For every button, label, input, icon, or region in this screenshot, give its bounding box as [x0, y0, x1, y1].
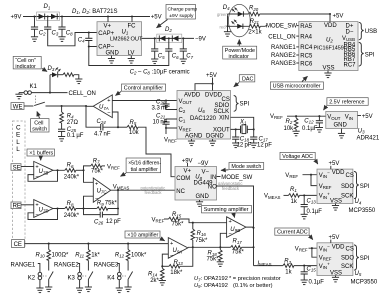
- svg-text:Current ADC: Current ADC: [277, 230, 308, 236]
- svg-text:0.1µF: 0.1µF: [307, 209, 323, 215]
- svg-text:RANGE1: RANGE1: [271, 45, 296, 51]
- wire +5V to VDD: [330, 166, 332, 169]
- svg-text:R6: R6: [67, 163, 74, 169]
- svg-text:WE: WE: [13, 104, 23, 110]
- resistor R4: [61, 106, 63, 112]
- callout Mode switch: [229, 163, 264, 170]
- svg-text:E: E: [16, 132, 20, 139]
- svg-text:VSS: VSS: [330, 270, 342, 276]
- wire R8 node to U7C -: [84, 196, 94, 208]
- svg-text:SCK: SCK: [341, 194, 353, 200]
- svg-text:R3: R3: [284, 259, 291, 265]
- svg-text:FC: FC: [128, 24, 137, 30]
- resistor R2: [295, 116, 297, 118]
- junction: [107, 15, 109, 17]
- callout x5/16 differential amplifier: [126, 158, 161, 173]
- svg-text:tial amplifier: tial amplifier: [131, 167, 158, 173]
- ground (K1): [18, 93, 20, 95]
- svg-text:+5V: +5V: [333, 13, 344, 19]
- wire R5 to U8 COM: [138, 127, 175, 177]
- capacitor C17: [253, 129, 255, 137]
- svg-text:75k*: 75k*: [195, 238, 208, 244]
- svg-text:100Ω*: 100Ω*: [52, 252, 69, 258]
- relay K3 contact: [88, 272, 93, 288]
- svg-text:240k*: 240k*: [64, 175, 80, 181]
- USB brace: [359, 22, 364, 40]
- svg-text:U7: OPA2192: U7: OPA2192: [194, 276, 228, 282]
- svg-text:27Ω: 27Ω: [67, 120, 79, 126]
- node VREF: [165, 128, 167, 134]
- svg-text:VDD: VDD: [332, 244, 345, 250]
- svg-text:C26: C26: [94, 219, 104, 225]
- resistor R20: [249, 12, 260, 16]
- svg-text:×10 amplifier: ×10 amplifier: [127, 233, 158, 239]
- svg-text:12 pF: 12 pF: [257, 142, 272, 148]
- wire R6 node to U7C +: [84, 170, 94, 182]
- svg-text:SDO: SDO: [341, 184, 354, 190]
- svg-text:RC4: RC4: [300, 45, 313, 51]
- svg-text:X1: X1: [239, 119, 247, 125]
- svg-text:C15: C15: [307, 267, 317, 273]
- resistor (LED series): [58, 74, 63, 76]
- wire summing row (U9A out to R17): [188, 246, 221, 248]
- svg-text:RC5: RC5: [300, 53, 313, 59]
- svg-text:SCK: SCK: [341, 264, 353, 270]
- svg-text:C7: C7: [186, 54, 193, 60]
- resistor R18: [219, 247, 221, 249]
- terminal SE: [11, 164, 21, 171]
- resistor R9: [84, 208, 97, 210]
- LED D3: [50, 75, 52, 93]
- svg-text:NC: NC: [176, 189, 185, 195]
- capacitor C3: [47, 17, 49, 28]
- svg-text:VIN: VIN: [345, 115, 353, 121]
- svg-text:75k*: 75k*: [172, 222, 185, 228]
- node +5V: [358, 115, 362, 117]
- svg-text:75k*: 75k*: [207, 257, 220, 263]
- mech link dashed: [34, 96, 36, 104]
- svg-text:K4: K4: [107, 276, 115, 282]
- svg-text:IMEAS: IMEAS: [258, 261, 272, 267]
- svg-text:VMEAS: VMEAS: [113, 184, 130, 190]
- svg-text:12 pF: 12 pF: [106, 219, 121, 225]
- resistor R8: [65, 207, 76, 211]
- wire U9B output / IMEAS down: [246, 227, 254, 266]
- svg-text:R17: R17: [233, 239, 243, 245]
- capacitor C24: [101, 124, 103, 130]
- resistor R1: [284, 194, 289, 196]
- svg-text:2k*: 2k*: [150, 278, 159, 284]
- op-amp U7A (points left): [93, 95, 112, 118]
- junction: [33, 15, 35, 17]
- svg-text:DG449: DG449: [194, 180, 214, 186]
- svg-text:* = precision resistor: * = precision resistor: [229, 276, 281, 282]
- callout DAC: [239, 75, 255, 82]
- ground (D4): [224, 32, 231, 37]
- callout x10 amplifier: [125, 231, 160, 238]
- svg-text:Charge pump: Charge pump: [168, 7, 198, 13]
- svg-text:10k: 10k: [129, 130, 140, 136]
- wire +5V to VDD (U5): [330, 240, 332, 243]
- svg-text:CELL_ON: CELL_ON: [69, 91, 96, 97]
- ADC U5 MCP3550 box: [317, 243, 353, 276]
- wire C3 bottom to C4/CAP+: [48, 29, 97, 46]
- svg-text:1k: 1k: [291, 199, 298, 205]
- svg-text:C6: C6: [172, 54, 179, 60]
- wire U7A output to WE node: [86, 105, 93, 107]
- svg-text:±9V supply: ±9V supply: [169, 13, 194, 19]
- svg-text:C5: C5: [158, 54, 165, 60]
- svg-text:−9V: −9V: [195, 37, 206, 43]
- svg-text:C12: C12: [304, 119, 314, 125]
- svg-text:L: L: [16, 146, 20, 153]
- svg-text:USB microcontroller: USB microcontroller: [273, 84, 321, 90]
- ground under U1 LV: [130, 56, 132, 59]
- node MODE_SW: [217, 176, 221, 178]
- svg-text:red: red: [220, 24, 227, 29]
- wire CE row: [25, 243, 169, 245]
- svg-text:XIN: XIN: [219, 116, 229, 122]
- svg-text:VREF: VREF: [107, 164, 120, 170]
- wire VDD to +5V: [329, 14, 331, 22]
- SPI brace (MCU): [359, 42, 364, 66]
- svg-text:D−: D−: [346, 30, 354, 36]
- svg-text:R21: R21: [250, 19, 260, 25]
- capacitor C7: [182, 38, 184, 49]
- svg-text:3.3 nF: 3.3 nF: [152, 106, 169, 112]
- svg-text:R9: R9: [97, 201, 104, 207]
- svg-text:V+: V+: [104, 24, 112, 30]
- svg-text:CE: CE: [14, 242, 22, 248]
- svg-text:MODE_SW: MODE_SW: [266, 23, 297, 29]
- capacitor C21: [166, 119, 177, 122]
- callout Control amplifier: [122, 84, 166, 91]
- svg-text:R2: R2: [286, 119, 293, 125]
- callout Current ADC: [275, 228, 309, 235]
- resistor R11: [87, 244, 89, 250]
- svg-text:1k*: 1k*: [91, 252, 100, 258]
- svg-text:DGND: DGND: [206, 134, 224, 140]
- svg-text:VREF: VREF: [270, 114, 283, 120]
- svg-text:CS: CS: [346, 173, 354, 179]
- svg-text:CS: CS: [346, 246, 354, 252]
- wire U9B - input: [220, 233, 226, 247]
- MCU U2 box: [299, 22, 358, 71]
- svg-text:RANGE2: RANGE2: [54, 263, 79, 269]
- svg-text:−9V: −9V: [198, 161, 209, 167]
- svg-text:R10: R10: [36, 252, 46, 258]
- reference U3 ADR421 box: [326, 111, 358, 128]
- svg-text:U9A: U9A: [173, 248, 183, 254]
- svg-text:CAP−: CAP−: [98, 45, 114, 51]
- wire NO galvanostatic feedback: [217, 186, 254, 228]
- svg-text:VREF: VREF: [295, 246, 308, 252]
- wire U7D feedback: [28, 209, 65, 220]
- DAC U6 box: [177, 91, 231, 140]
- svg-text:SPI: SPI: [360, 184, 370, 190]
- ground VSS: [327, 71, 329, 74]
- svg-text:VREF: VREF: [285, 173, 298, 179]
- svg-text:AGND: AGND: [185, 134, 203, 140]
- svg-text:U7C: U7C: [97, 188, 108, 194]
- resistor R21: [249, 25, 260, 29]
- svg-text:R4: R4: [67, 114, 74, 120]
- svg-text:green: green: [217, 12, 228, 17]
- ground AGND: [191, 139, 193, 141]
- svg-text:+9V: +9V: [11, 15, 22, 21]
- wire RE to U7D: [21, 204, 34, 206]
- callout Cell on indicator: [13, 56, 41, 69]
- svg-text:L: L: [16, 139, 20, 146]
- svg-text:C1: C1: [179, 117, 186, 123]
- svg-text:R11: R11: [75, 252, 84, 258]
- resistor R10: [48, 244, 50, 250]
- svg-text:100k*: 100k*: [131, 252, 147, 258]
- svg-text:C: C: [16, 125, 21, 132]
- svg-text:RANGE3: RANGE3: [271, 61, 296, 67]
- callout Power/Mode indicator: [223, 46, 257, 59]
- svg-text:SDO: SDO: [341, 255, 354, 261]
- crystal X1: [231, 117, 254, 129]
- svg-text:+5V: +5V: [151, 15, 162, 21]
- svg-text:MCP3550: MCP3550: [351, 279, 378, 285]
- svg-text:LM2662: LM2662: [110, 37, 129, 43]
- op-amp U7D: [34, 200, 53, 218]
- wire U9A - input loop: [162, 254, 168, 266]
- op IC U1 LM2662 box: [97, 22, 142, 56]
- terminal WE: [11, 103, 24, 110]
- junction: [61, 15, 63, 17]
- svg-text:R15: R15: [172, 212, 182, 218]
- op-amp U7B: [34, 161, 53, 179]
- wire + cell switch: [24, 105, 33, 107]
- SPI brace (U4): [354, 171, 359, 198]
- svg-text:feedback: feedback: [222, 186, 240, 191]
- ground U3: [341, 129, 343, 134]
- svg-text:MODE_SW: MODE_SW: [221, 175, 252, 181]
- svg-text:+5V: +5V: [362, 114, 373, 120]
- op-amp U7C: [93, 178, 110, 202]
- svg-text:GND: GND: [196, 194, 210, 200]
- svg-text:MCP3550: MCP3550: [349, 208, 376, 214]
- svg-text:RE: RE: [13, 204, 21, 210]
- svg-text:18k*: 18k*: [170, 270, 183, 276]
- svg-text:RANGE3: RANGE3: [94, 263, 119, 269]
- svg-text:Cell: Cell: [34, 121, 43, 127]
- svg-text:GND: GND: [334, 123, 348, 129]
- wire SE to U7B: [21, 166, 34, 168]
- svg-text:VOUT: VOUT: [179, 99, 193, 105]
- diode D1 (dual BAT721S): [37, 12, 60, 21]
- svg-text:R20: R20: [249, 6, 259, 12]
- callout 2.5V reference: [327, 98, 368, 106]
- svg-text:feedback: feedback: [145, 190, 163, 195]
- junction: [47, 15, 49, 17]
- callout x1 buffers: [27, 149, 55, 156]
- svg-text:USB: USB: [365, 29, 377, 35]
- svg-text:U9: OPA4192: U9: OPA4192: [194, 283, 228, 289]
- svg-text:RC6: RC6: [300, 61, 313, 67]
- svg-text:R16: R16: [197, 231, 207, 237]
- ground under U1 GND: [111, 56, 113, 59]
- callout Cell switch: [31, 119, 49, 132]
- resistor R5: [118, 126, 127, 128]
- svg-text:RANGE2: RANGE2: [271, 53, 296, 59]
- capacitor C15: [303, 266, 305, 272]
- svg-text:DVDD: DVDD: [205, 92, 223, 98]
- svg-text:U2: U2: [326, 38, 333, 44]
- svg-text:indicator: indicator: [229, 54, 250, 60]
- svg-text:R7: R7: [93, 158, 100, 164]
- capacitor C6: [168, 38, 170, 49]
- svg-text:VSS: VSS: [330, 199, 342, 205]
- svg-text:COM: COM: [176, 176, 190, 182]
- svg-text:R5: R5: [130, 120, 137, 126]
- svg-text:VDD: VDD: [324, 23, 337, 29]
- svg-text:VREF: VREF: [179, 126, 192, 132]
- wire MODE_SW to RA5: [260, 25, 266, 28]
- wire U7B feedback: [28, 170, 65, 181]
- resistor R3: [283, 264, 294, 268]
- terminal RE: [11, 202, 21, 209]
- svg-text:DAC: DAC: [242, 76, 253, 82]
- capacitor C4: [88, 31, 90, 33]
- svg-text:Control amplifier: Control amplifier: [124, 86, 163, 92]
- svg-text:VREF: VREF: [319, 184, 332, 190]
- svg-text:D4: D4: [223, 5, 230, 11]
- diode D2 (dual BAT721S): [157, 34, 182, 43]
- svg-text:+5V: +5V: [329, 161, 340, 167]
- svg-text:Summing amplifier: Summing amplifier: [204, 207, 249, 213]
- svg-text:×5/16 differen-: ×5/16 differen-: [128, 160, 161, 166]
- CELL dashed box: [13, 121, 26, 247]
- svg-text:D3: D3: [48, 66, 55, 72]
- ground U8: [199, 200, 201, 202]
- wire CAP- and long link to C6: [89, 47, 169, 66]
- svg-text:R14: R14: [148, 271, 158, 277]
- svg-text:U7B: U7B: [39, 169, 49, 175]
- ground DGND: [212, 139, 214, 141]
- svg-text:VMEAS: VMEAS: [264, 194, 281, 200]
- svg-text:1k: 1k: [285, 269, 292, 275]
- svg-text:+: +: [170, 241, 173, 247]
- svg-text:V+: V+: [184, 169, 192, 175]
- svg-text:VREF: VREF: [319, 255, 332, 261]
- resistor R12: [127, 244, 129, 250]
- svg-text:0.1µF: 0.1µF: [302, 126, 318, 132]
- capacitor C8: [61, 17, 63, 28]
- op-amp U9A: [168, 238, 188, 259]
- svg-text:U7A: U7A: [99, 105, 109, 111]
- svg-text:R8: R8: [67, 201, 74, 207]
- svg-text:Power/Mode: Power/Mode: [225, 48, 255, 54]
- svg-text:4.7 nF: 4.7 nF: [94, 132, 111, 138]
- svg-text:VOUT: VOUT: [327, 115, 341, 121]
- callout USB microcontroller: [270, 82, 323, 89]
- capacitor C13: [303, 195, 305, 204]
- capacitor C5: [154, 38, 156, 49]
- svg-text:+5V: +5V: [206, 73, 217, 79]
- resistor R7: [84, 166, 91, 170]
- svg-text:C2: C2: [179, 108, 186, 114]
- svg-text:C2: C2: [39, 31, 46, 37]
- svg-text:U9B: U9B: [230, 227, 240, 233]
- svg-text:U4: U4: [355, 199, 362, 205]
- svg-text:C24: C24: [97, 119, 107, 125]
- svg-text:+: +: [107, 98, 110, 104]
- node CELL_ON: [50, 92, 68, 94]
- svg-text:CELL_ON: CELL_ON: [268, 34, 295, 40]
- capacitor C2: [34, 17, 36, 28]
- svg-text:R1: R1: [290, 187, 297, 193]
- svg-text:C13: C13: [307, 198, 317, 204]
- svg-text:(0.1% or better): (0.1% or better): [233, 283, 273, 289]
- svg-text:V−: V−: [202, 169, 210, 175]
- SPI brace (U5): [354, 245, 359, 270]
- analog switch U8 DG449 box: [175, 167, 217, 201]
- svg-text:×1 buffers: ×1 buffers: [29, 151, 53, 157]
- svg-text:D1: D1: [44, 4, 51, 10]
- callout Charge pump: [166, 5, 196, 20]
- wire +9V rail: [23, 16, 150, 18]
- node IMEAS + wire: [254, 265, 283, 267]
- callout Summing amplifier: [202, 206, 252, 213]
- svg-text:AVDD: AVDD: [184, 92, 201, 98]
- svg-text:VREF: VREF: [164, 137, 177, 143]
- svg-text:VSS: VSS: [323, 66, 335, 72]
- wire OUT rail: [142, 37, 195, 39]
- relay K2 contact: [49, 272, 54, 288]
- junction: [131, 15, 133, 17]
- resistor R13: [162, 265, 169, 267]
- svg-text:0.1 µF: 0.1 µF: [67, 133, 84, 139]
- resistor R6: [65, 169, 76, 173]
- svg-text:K2: K2: [28, 276, 36, 282]
- svg-text:2.5V reference: 2.5V reference: [329, 100, 364, 106]
- svg-text:DAC1220: DAC1220: [190, 116, 217, 122]
- svg-text:+: +: [229, 219, 232, 225]
- svg-text:C2 – C8 :10µF ceramic: C2 – C8 :10µF ceramic: [130, 70, 190, 76]
- svg-text:R13: R13: [174, 260, 184, 266]
- svg-text:D2: D2: [165, 27, 172, 33]
- ground: [75, 79, 82, 84]
- ground U5 VSS: [335, 276, 337, 278]
- svg-text:PIC16F1459: PIC16F1459: [314, 45, 344, 51]
- svg-text:U7D: U7D: [39, 207, 50, 213]
- svg-text:12 pF: 12 pF: [237, 142, 252, 148]
- svg-text:0.1µF: 0.1µF: [309, 279, 325, 285]
- svg-text:RC7: RC7: [344, 62, 357, 68]
- svg-text:C8: C8: [66, 31, 73, 37]
- svg-text:OUT: OUT: [131, 37, 144, 43]
- svg-text:Mode switch: Mode switch: [231, 164, 261, 170]
- ground: [58, 137, 65, 142]
- svg-text:VDD: VDD: [332, 170, 345, 176]
- svg-text:10 nF: 10 nF: [153, 120, 168, 126]
- node VMEAS / output wire to U8 NC: [111, 189, 175, 191]
- svg-text:C4: C4: [78, 38, 85, 44]
- svg-text:SPI: SPI: [365, 52, 375, 58]
- svg-text:+: +: [95, 182, 98, 188]
- svg-text:Voltage ADC: Voltage ADC: [282, 154, 313, 160]
- svg-text:240k*: 240k*: [64, 213, 80, 219]
- svg-text:U1: U1: [122, 30, 129, 36]
- svg-text:C3: C3: [52, 31, 59, 37]
- svg-text:indicator: indicator: [15, 64, 36, 70]
- svg-text:75k*: 75k*: [232, 250, 245, 256]
- svg-text:switch: switch: [32, 127, 47, 133]
- ADC U4 MCP3550 box: [317, 169, 353, 203]
